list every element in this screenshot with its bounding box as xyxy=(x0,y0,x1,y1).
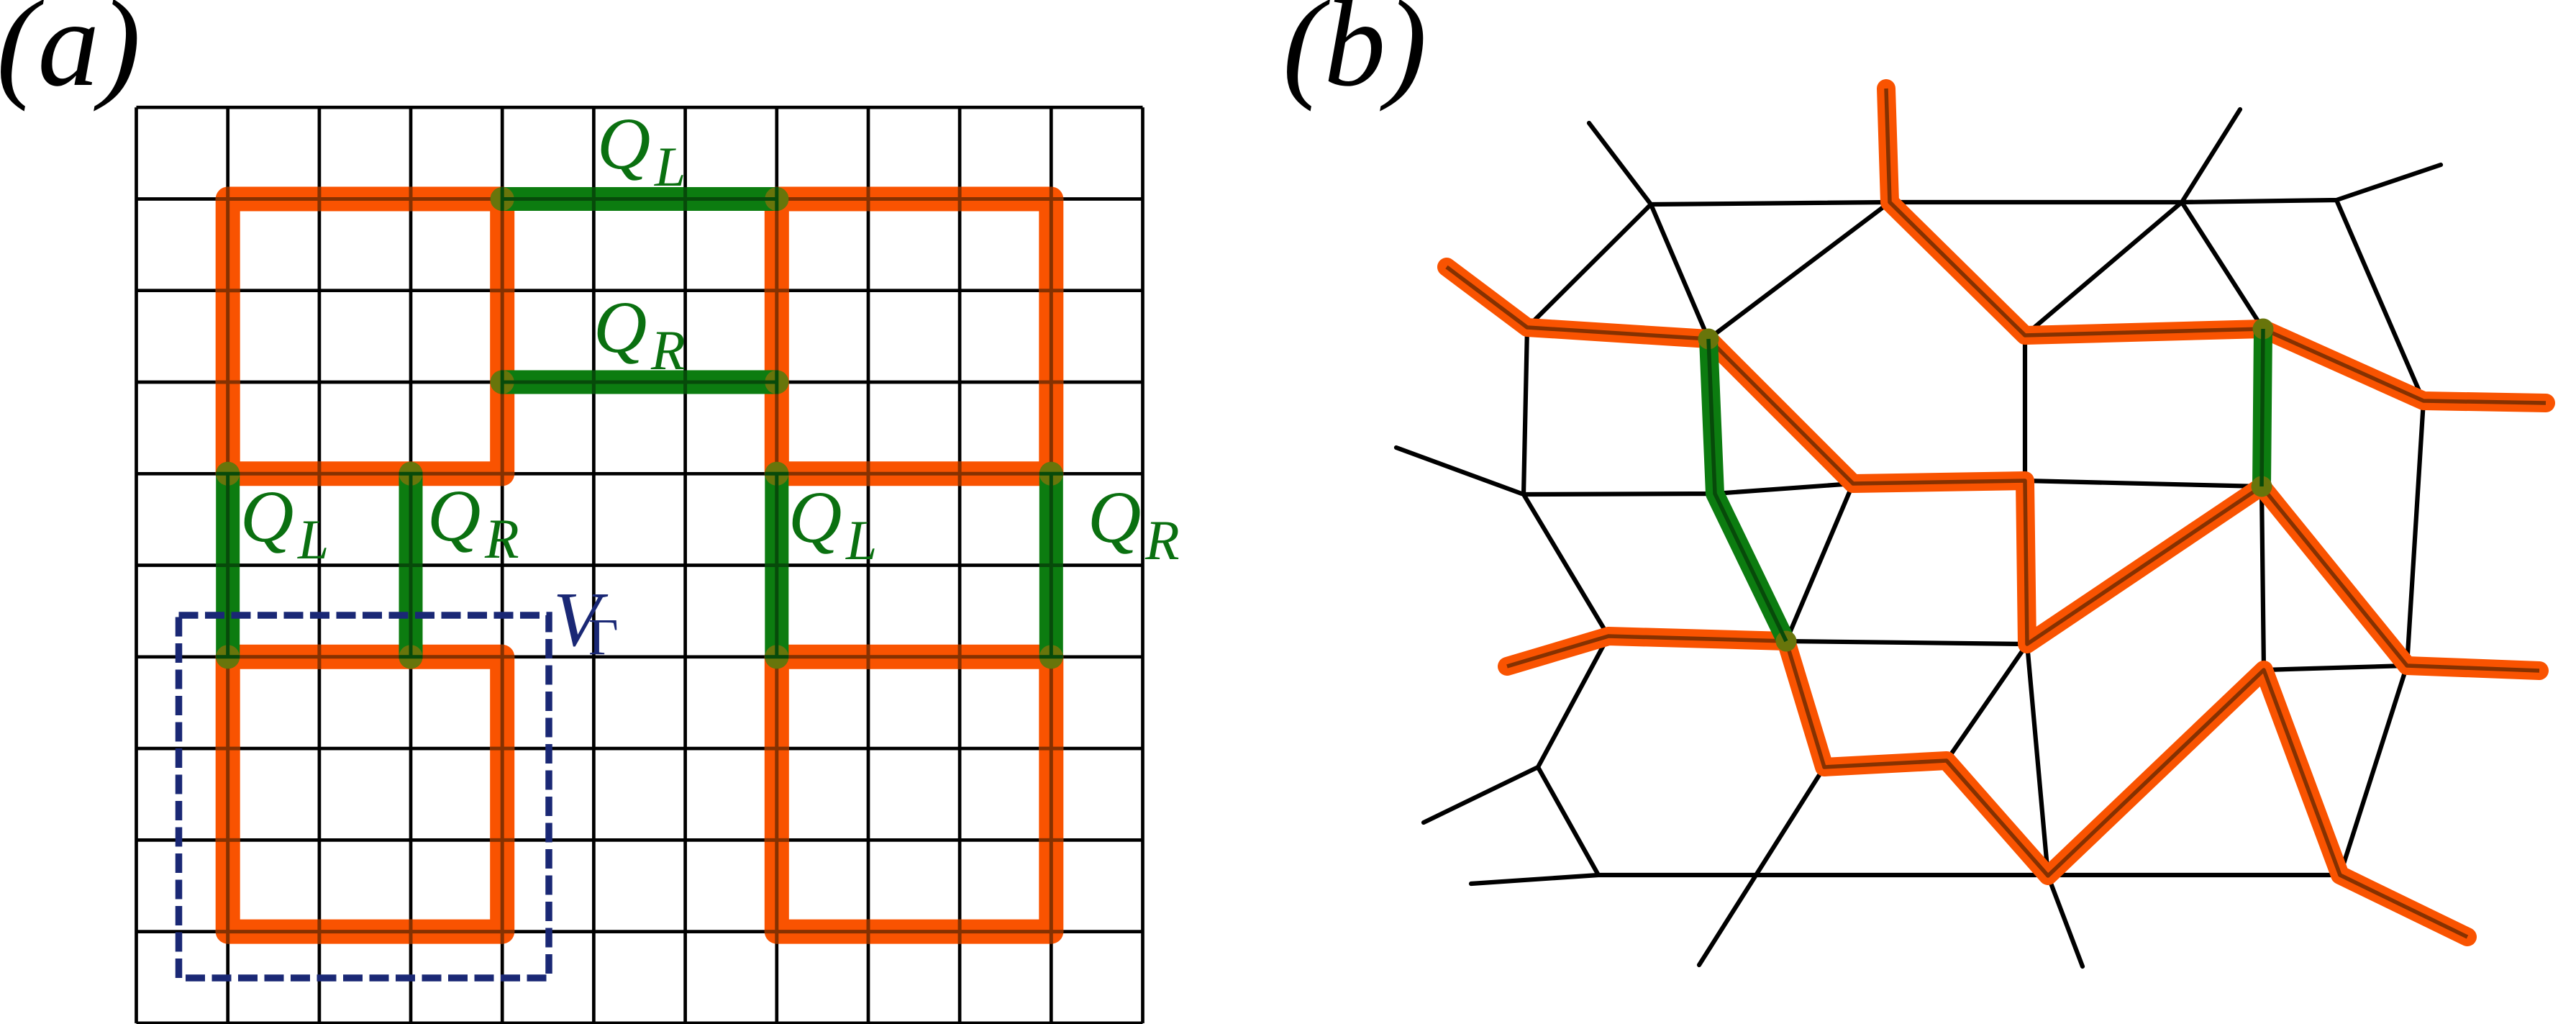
orange path upper-left xyxy=(1447,267,2539,671)
green segment QL right vertical col7 xyxy=(765,474,788,657)
svg-text:(b): (b) xyxy=(1283,0,1427,112)
olive overlap blobs at green segment endpoints xyxy=(491,187,514,211)
orange loop loop A top-left xyxy=(228,199,503,474)
orange path upper-right xyxy=(1886,89,2546,403)
svg-text:Q: Q xyxy=(597,103,650,185)
svg-text:Γ: Γ xyxy=(588,608,619,666)
svg-text:Q: Q xyxy=(1088,476,1141,558)
grid core through green QR left vertical col3 xyxy=(399,474,423,657)
grid core through green QR middle horizontal xyxy=(502,371,777,394)
orange loop loop D bottom-right xyxy=(777,657,1052,932)
grid core through orange loop B bottom-left xyxy=(216,645,515,944)
grid core through green QL top horizontal xyxy=(502,187,777,211)
grid core through green QR right vertical col10 xyxy=(1039,474,1063,657)
green segment QR right vertical col10 xyxy=(1039,474,1063,657)
green segment left (b) xyxy=(1708,339,1786,641)
svg-text:L: L xyxy=(845,509,877,571)
black core of orange path upper-left xyxy=(1447,267,2539,671)
green segment QR middle horizontal xyxy=(502,371,777,394)
green segment QR left vertical col3 xyxy=(399,474,423,657)
black core of orange path upper-right xyxy=(1886,89,2546,403)
green segment right (b) xyxy=(2262,329,2263,486)
grid core through orange loop A top-left xyxy=(216,187,515,486)
grid core through green QL left vertical col1 xyxy=(216,474,240,657)
square lattice grid xyxy=(137,107,1143,1023)
svg-text:Q: Q xyxy=(427,475,481,557)
svg-text:L: L xyxy=(297,508,329,571)
orange loop loop C top-right xyxy=(777,199,1052,474)
orange loop loop B bottom-left xyxy=(228,657,503,932)
black core of green segment right (b) xyxy=(2262,329,2263,486)
green segment QL top horizontal xyxy=(502,187,777,211)
black core of green segment left (b) xyxy=(1708,339,1786,641)
svg-text:R: R xyxy=(1144,509,1180,571)
svg-text:(a): (a) xyxy=(0,0,141,112)
black core of orange path lower xyxy=(1507,636,2467,937)
green segment QL left vertical col1 xyxy=(216,474,240,657)
grid core through green QL right vertical col7 xyxy=(765,474,788,657)
orange path lower xyxy=(1507,636,2467,937)
grid core through orange loop C top-right xyxy=(765,187,1064,486)
svg-text:R: R xyxy=(650,319,686,381)
grid core through orange loop D bottom-right xyxy=(765,645,1064,944)
svg-text:Q: Q xyxy=(788,476,842,558)
dashed blue box V_Gamma xyxy=(179,615,550,978)
svg-text:Q: Q xyxy=(240,476,293,558)
olive overlap blobs (b) xyxy=(1698,329,1719,350)
svg-text:L: L xyxy=(654,135,686,198)
irregular graph black edges xyxy=(1396,89,2546,966)
svg-text:R: R xyxy=(484,507,519,570)
svg-text:Q: Q xyxy=(593,286,647,368)
